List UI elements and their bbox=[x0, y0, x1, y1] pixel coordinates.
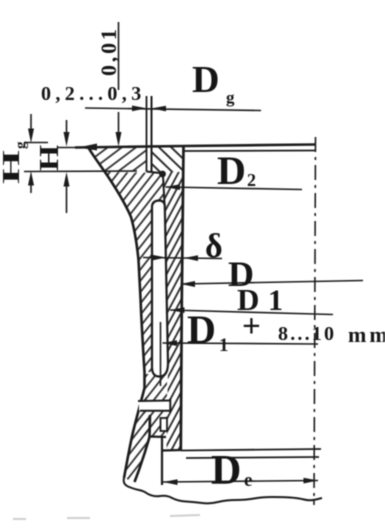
liner outer surface below block bbox=[161, 437, 163, 485]
boring line in jacket bbox=[160, 322, 162, 386]
block neck band hatching bbox=[106, 172, 165, 206]
dimension D1 bbox=[170, 307, 333, 314]
dimension 0,2...0,3 / Dg line bbox=[85, 106, 261, 112]
liner outer above jacket bbox=[163, 176, 165, 203]
lower seal groove bbox=[161, 418, 168, 431]
recess gap right line bbox=[151, 96, 153, 172]
svg-text:δ: δ bbox=[205, 228, 223, 265]
liner bottom edge bbox=[163, 449, 181, 452]
break line wavy bbox=[124, 478, 322, 503]
svg-text:8...10: 8...10 bbox=[278, 323, 336, 345]
liner strip hatching bbox=[165, 205, 183, 450]
svg-text:1: 1 bbox=[268, 284, 283, 317]
dimension De bbox=[163, 478, 318, 485]
svg-text:g: g bbox=[226, 88, 235, 107]
svg-text:D: D bbox=[211, 448, 241, 494]
liner bore edge bbox=[181, 146, 184, 450]
svg-text:+: + bbox=[242, 309, 261, 345]
svg-text:mm: mm bbox=[348, 322, 385, 347]
junction dot bbox=[159, 171, 166, 178]
block wedge inner edge bbox=[135, 415, 151, 482]
svg-text:1: 1 bbox=[219, 335, 229, 356]
svg-text:e: e bbox=[244, 470, 252, 491]
lower seat line 2 bbox=[186, 457, 319, 458]
svg-text:2: 2 bbox=[247, 170, 256, 190]
svg-text:g: g bbox=[13, 141, 29, 149]
top face corner blob bbox=[78, 144, 97, 151]
liner flange hatching bbox=[153, 147, 184, 172]
bore mouth chamfer line bbox=[184, 150, 315, 153]
block lower belt hatching bbox=[144, 374, 167, 436]
dimension D2 bbox=[166, 184, 303, 190]
centerline bbox=[314, 137, 316, 505]
dimension D1+8...10mm bbox=[163, 340, 319, 346]
block lower belt bottom edge bbox=[149, 435, 166, 438]
dimension H bbox=[24, 120, 137, 213]
block outer contour bbox=[88, 147, 145, 478]
scan smudges bbox=[13, 515, 200, 519]
liner neck hatching bbox=[164, 172, 183, 205]
upper seal groove bbox=[139, 401, 171, 411]
leader 0,01 bbox=[116, 22, 122, 147]
block mid wall hatching bbox=[126, 206, 152, 372]
svg-text:D: D bbox=[187, 307, 216, 352]
water jacket slot (white) bbox=[152, 201, 168, 377]
svg-text:H: H bbox=[0, 150, 25, 184]
dimension Hg bbox=[24, 114, 48, 193]
svg-text:0,01: 0,01 bbox=[96, 26, 121, 76]
svg-text:D: D bbox=[192, 59, 219, 101]
svg-text:H: H bbox=[34, 145, 64, 171]
svg-text:0,2...0,3: 0,2...0,3 bbox=[41, 83, 146, 105]
dimension delta bbox=[143, 255, 222, 261]
top face line bbox=[75, 145, 315, 148]
recess seat line bbox=[147, 172, 161, 174]
block bottom wedge hatching bbox=[124, 388, 150, 482]
dimension D bbox=[181, 281, 364, 288]
lower seat line 1 bbox=[181, 449, 321, 451]
recess gap left line bbox=[146, 96, 148, 172]
svg-text:D: D bbox=[217, 148, 246, 193]
block top hatching bbox=[88, 147, 147, 172]
